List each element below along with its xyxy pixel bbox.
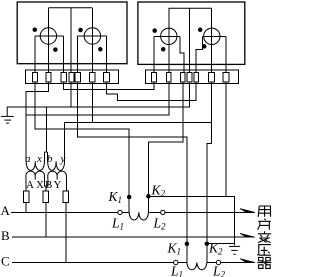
PT secondary winding a-x (2 loops) <box>26 161 44 170</box>
PT primary winding B-Y (2 arches) <box>48 171 67 180</box>
wire: W2 element3 current coil top <box>154 35 180 37</box>
glyph 器 <box>257 257 271 268</box>
glyph 用 <box>258 206 270 217</box>
wire: PT primary A lead to fuse 1 <box>25 180 27 191</box>
CT2 secondary coil (2 loops under line C) <box>187 263 207 270</box>
polarity dot W2 el4 lower <box>202 44 207 49</box>
arrow on line B to user transformer <box>240 233 255 237</box>
W2 terminal 3 <box>181 72 186 82</box>
junction dot CT1 K1 <box>127 195 132 200</box>
wire: W2 element3 current coil left side to terminal 1 <box>153 36 155 82</box>
wire: W1 element1 current coil right side to terminal 3 <box>63 36 65 82</box>
wire: fuse2 drop to line B <box>45 203 47 238</box>
fuse F1 <box>23 191 29 203</box>
net: a -> W2 terminal 2 (phase A voltage, east run) <box>26 82 169 115</box>
W1 terminal 3 <box>61 72 66 82</box>
W1 terminal 2 <box>46 72 51 82</box>
arrow on line A to user transformer <box>240 209 255 213</box>
W1 terminal strip outline <box>26 70 119 83</box>
svg-text:b: b <box>47 153 53 165</box>
PT primary winding A-X (2 arches) <box>26 171 45 180</box>
net: W2 t6 down, jog, to CT2 K2 and line C coil end <box>207 82 212 263</box>
net: W1 t3 -> W2 t1 (current I1 series link) <box>64 82 154 89</box>
W1 terminal 4 <box>69 72 74 82</box>
CT2 primary terminal L1 (open circle) <box>174 260 178 264</box>
polarity dot W2 el3 upper <box>152 28 157 32</box>
W1 terminal 1 <box>32 72 37 82</box>
wire: x&amp;b split to coil ends <box>44 152 47 161</box>
polarity dot W2 el4 upper <box>198 28 203 33</box>
fuse F2 <box>43 191 49 203</box>
W1 element 2 (measuring element circle) <box>84 28 100 44</box>
svg-text:B: B <box>45 179 52 191</box>
wire: W1 element1 voltage lead down through circle to terminal 2 <box>47 8 49 82</box>
svg-text:C: C <box>1 254 10 269</box>
line B <box>12 236 255 238</box>
W1 element 1 (measuring element circle) <box>40 28 56 44</box>
vertical text: 用户变压器 (user transformer), drawn glyphs <box>257 206 271 268</box>
svg-text:x: x <box>36 153 42 165</box>
svg-text:a: a <box>25 153 31 165</box>
wire: W1 element2 current coil right side to terminal 7 <box>105 36 107 82</box>
wire: W2 element3 voltage lead to terminal 2 <box>168 8 170 82</box>
wire: W1 t4 drop to ground bus <box>70 82 72 107</box>
wire: W2 t7 drop to earth run <box>225 82 227 196</box>
wire: W1 element1 current coil left side to terminal 1 <box>34 36 36 82</box>
wire: W1 element2 current coil left side to terminal 5 <box>77 36 79 82</box>
svg-text:Y: Y <box>54 179 62 191</box>
CT1 secondary coil (2 loops under line A) <box>129 212 148 220</box>
svg-text:A: A <box>26 179 34 191</box>
wire: PT primary X and B leads joined to fuse 2 <box>45 180 48 191</box>
svg-text:X: X <box>36 179 44 191</box>
net: W1 t5 -> CT2 K1 <box>78 82 187 263</box>
wire: W1 mid voltage lead to terminal 4 <box>70 8 72 82</box>
wire: W1 element1 current coil top <box>35 35 64 37</box>
W1 terminal 6 <box>89 72 95 82</box>
glyph 压 <box>257 245 271 256</box>
wire: fuse3 drop to line C <box>65 203 67 263</box>
fuse F3 <box>63 191 69 203</box>
svg-text:B: B <box>1 228 10 243</box>
glyph 变 <box>258 231 271 242</box>
junction dot CT1 K2 <box>146 194 151 199</box>
W2 terminal strip outline <box>146 70 239 84</box>
ground symbol (left) <box>1 107 14 123</box>
CT2 primary terminal L2 (open circle) <box>216 260 220 264</box>
arrow on line C to user transformer <box>240 259 255 263</box>
wire: W1 element2 voltage lead down through circle to terminal 6 <box>91 8 93 82</box>
polarity dot W1 el2 lower <box>98 47 103 52</box>
W2 element 3 (measuring element circle) <box>161 28 177 44</box>
line A <box>11 211 254 213</box>
meter box W1 (active energy meter) <box>17 2 127 64</box>
glyph 户 <box>258 219 271 230</box>
wire: CT2 K2 link to earth run <box>207 243 235 245</box>
W2 terminal 7 <box>223 72 229 82</box>
wire: W2 element4 voltage lead to terminal 6 <box>211 8 213 82</box>
polarity dot W1 el1 lower <box>53 47 58 52</box>
net: ground bus <box>7 106 189 108</box>
wire: W2 element4 current coil left side jog to terminal 5 <box>196 36 202 82</box>
net: W1 t7 -> W2 t5 (current I2 series link, stepped) <box>106 82 196 101</box>
net: W2 t3 -> CT1 K2 link <box>148 82 183 212</box>
wire: W2 element4 current coil right side to terminal 7 <box>225 36 227 82</box>
net: a -> W1 terminal 2 (phase A voltage, west run) <box>26 82 48 161</box>
W1 terminal 5 <box>75 72 81 82</box>
net: W1 t1 -> CT1 K1 <box>35 82 129 212</box>
svg-text:A: A <box>1 203 11 218</box>
wire: W1 top voltage bus <box>48 7 92 9</box>
meter box W2 (reactive energy meter) <box>138 2 245 64</box>
net: PT secondary y -> W1 t6 and W2 t6 (phase C voltage) <box>65 82 212 161</box>
polarity dot W2 el3 lower <box>161 47 166 52</box>
line C <box>12 262 255 264</box>
W2 terminal 6 <box>209 72 215 82</box>
CT1 primary terminal L1 (open circle) <box>118 210 122 214</box>
W2 terminal 1 <box>152 72 157 82</box>
wire: PT secondary x&amp;b common riser to ground bus <box>45 107 47 152</box>
W2 terminal 2 <box>167 72 172 82</box>
wire: W2 mid voltage lead to terminal 4 <box>189 8 191 82</box>
svg-text:y: y <box>60 153 66 165</box>
wire: fuse1 drop to line A <box>25 203 27 213</box>
junction dot CT2 K2 <box>205 241 210 246</box>
W1 terminal 7 <box>103 72 109 82</box>
PT secondary winding b-y (2 loops) <box>48 161 65 170</box>
polarity dot W1 el2 upper <box>78 28 83 33</box>
wire: W2 t4 drop to ground bus <box>189 82 191 107</box>
W2 terminal 5 <box>194 72 199 82</box>
wire: W2 element4 current coil top <box>203 35 227 37</box>
net: CT secondary common earth run (K2 side) <box>148 196 234 245</box>
wire: W2 top voltage bus <box>169 7 212 9</box>
wire: PT primary Y lead to fuse 3 <box>65 180 68 191</box>
W2 terminal 4 <box>187 72 192 82</box>
wire: W2 element3 current coil right side jog to terminal 3 <box>180 36 184 82</box>
polarity dot W1 el1 upper <box>33 27 38 32</box>
junction dot CT2 K1 <box>185 242 190 247</box>
W2 element 4 (measuring element circle) <box>204 28 220 44</box>
ground symbol (right, CT secondary earth) <box>229 246 240 254</box>
wire: W1 element2 current coil top <box>78 35 107 37</box>
CT1 primary terminal L2 (open circle) <box>161 210 165 214</box>
